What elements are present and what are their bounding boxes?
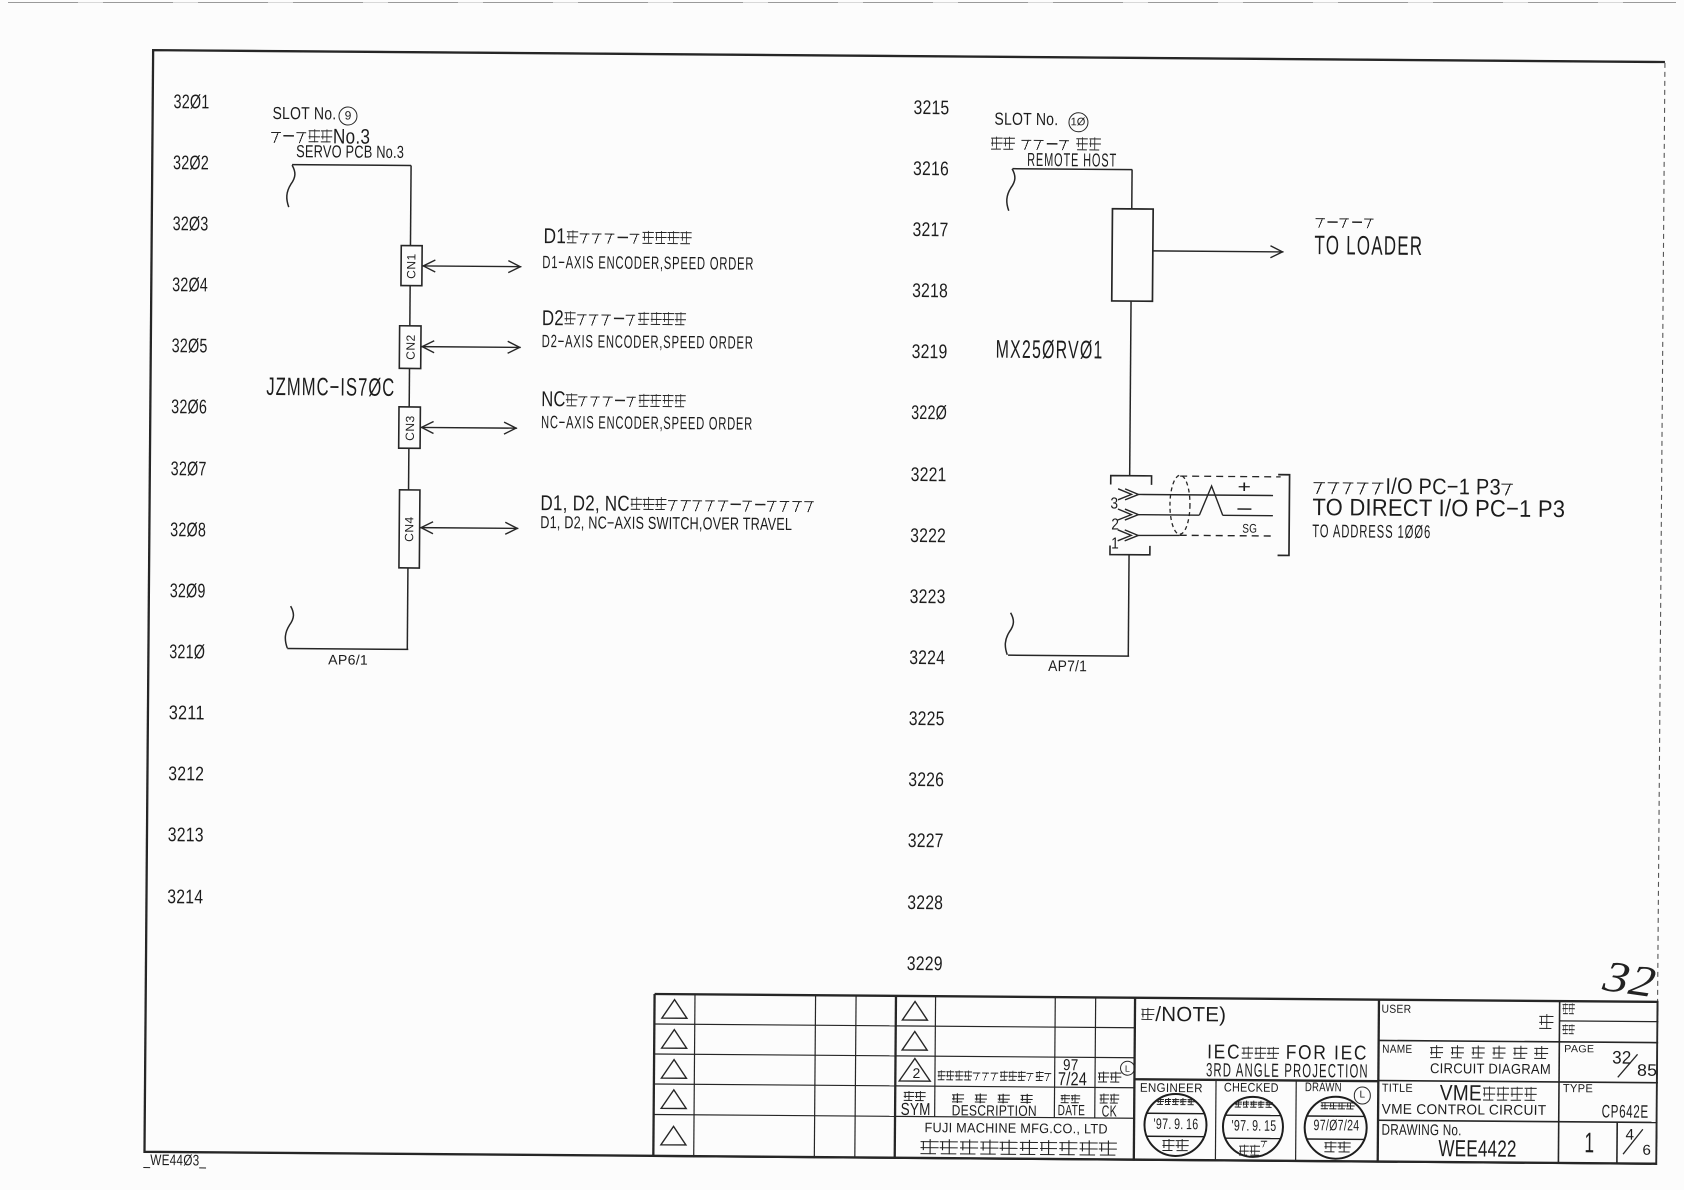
label NC-AXIS ENCODER SPEED ORDER <box>541 414 753 434</box>
title block right edge <box>1656 1001 1657 1165</box>
node/line number 3201 <box>174 93 210 113</box>
wire bus to CN1 <box>409 166 412 246</box>
stamp date 97.9.15 <box>1231 1119 1276 1135</box>
node/line number 3225 <box>908 710 944 730</box>
revision description text (jp) <box>937 1068 1053 1085</box>
header DESCRIPTION (jp) <box>950 1091 1033 1107</box>
module box MX250RV01 <box>1112 209 1153 302</box>
label REMOTE HOST <box>1027 151 1117 170</box>
circled mark L (drawn) <box>1353 1086 1371 1104</box>
label switch over travel (jp) <box>540 493 816 517</box>
page fraction slash <box>1618 1054 1638 1077</box>
left revision table row line <box>654 1114 895 1116</box>
pin 2 chevron outer <box>1118 509 1132 520</box>
twisted pair crossover <box>1199 486 1223 515</box>
circled slot number 9 <box>338 106 357 125</box>
connector bracket top <box>1111 476 1152 485</box>
stamp name Yamamoto (jp) <box>1238 1139 1268 1162</box>
cell bunban (jp) <box>1562 1003 1575 1016</box>
boundary brace (AP7/1 bottom) <box>1005 613 1013 655</box>
addressee dono (jp) <box>1538 1011 1554 1036</box>
revision triangle L1 <box>662 1000 687 1019</box>
revision table divider <box>895 996 896 1159</box>
node/line number 3222 <box>910 527 946 547</box>
sheet code _WE4403_ <box>142 1153 206 1169</box>
node/line number 3205 <box>172 337 208 357</box>
note box left edge <box>1134 998 1135 1161</box>
pin 1 chevron outer <box>1118 530 1132 541</box>
stamp DRAWN Esaka <box>1304 1096 1366 1158</box>
pin number 1 <box>1111 537 1119 553</box>
left revision table row line <box>654 1024 895 1026</box>
node/line number 3227 <box>907 832 943 852</box>
header DRAWING No. <box>1381 1122 1461 1138</box>
connector label CN2 <box>390 327 430 367</box>
sheet 4 <box>1625 1128 1634 1144</box>
sheet 6 <box>1643 1144 1652 1158</box>
pin 2 chevron inner <box>1125 509 1139 520</box>
wire to AP7/1 <box>1127 555 1130 656</box>
node/line number 3209 <box>170 582 206 602</box>
conductor + wire <box>1139 494 1273 495</box>
cable shield ellipse <box>1170 475 1190 534</box>
stamp date 97/07/24 <box>1314 1118 1360 1134</box>
left revision table row line <box>654 1084 895 1086</box>
polarity - label <box>1237 508 1251 510</box>
node/line number 3204 <box>172 276 208 296</box>
node/line number 3214 <box>167 888 203 908</box>
label D2-axis encoder speed order (jp) <box>542 308 687 331</box>
sheet fraction slash <box>1623 1129 1643 1154</box>
note header <box>1140 1005 1226 1026</box>
connector label CN4 <box>389 509 429 549</box>
left revision table left edge <box>653 994 654 1157</box>
drawing number WEE4422 <box>1438 1137 1516 1161</box>
wire CN1 to CN2 <box>409 286 411 326</box>
signal arrow CN4 arrowhead left <box>421 522 433 534</box>
header DATE <box>1058 1104 1086 1119</box>
connector bracket bottom <box>1110 546 1150 555</box>
revision triangle L3 <box>661 1060 686 1079</box>
conductor - wire (right) <box>1223 514 1273 516</box>
header PAGE <box>1564 1045 1594 1056</box>
boundary brace (servo pcb top) <box>287 165 295 207</box>
drawing frame right edge (faint) <box>1658 63 1665 1001</box>
handwritten page number 32 <box>1604 958 1656 1002</box>
pin number 2 <box>1111 518 1119 534</box>
header TYPE <box>1563 1083 1593 1095</box>
note 3RD ANGLE PROJECTION <box>1206 1061 1369 1081</box>
revision triangle R2 <box>902 1031 927 1050</box>
right info row line <box>1379 1040 1659 1042</box>
header DESCRIPTION <box>951 1104 1036 1120</box>
group bracket to direct I/O <box>1278 475 1290 556</box>
stamp ENGINEER Adachi <box>1144 1094 1206 1156</box>
stamp CHECKED Yamamoto <box>1223 1097 1283 1157</box>
note IEC <box>1207 1043 1368 1064</box>
stamp date 97.9.16 <box>1153 1117 1198 1133</box>
node/line number 3229 <box>906 955 942 975</box>
node/line number 3226 <box>908 771 944 791</box>
boundary brace (AP6/1 bottom) <box>285 606 293 648</box>
stamp dept (jp) <box>1320 1100 1354 1113</box>
label TO DIRECT I/O PC-1 P3 <box>1312 496 1565 522</box>
label TO ADDRESS 1006 <box>1312 522 1431 541</box>
title VME control circuit (jp) <box>1440 1082 1538 1105</box>
node/line number 3215 <box>913 99 949 119</box>
bunban/seiban divider <box>1560 1020 1659 1023</box>
node/line number 3206 <box>171 399 207 419</box>
title block top border <box>655 994 1659 1002</box>
node/line number 3221 <box>910 465 946 485</box>
cell seiban (jp) <box>1562 1024 1575 1037</box>
signal arrow CN2 <box>421 346 520 349</box>
connector CN1 <box>401 246 422 286</box>
page 32 <box>1612 1049 1632 1067</box>
component value JZMMC-IS70C <box>266 375 395 401</box>
net AP7/1 <box>1048 659 1087 675</box>
svg-text:2: 2 <box>913 1065 921 1081</box>
label D1-AXIS ENCODER SPEED ORDER <box>542 254 754 274</box>
label D2-AXIS ENCODER SPEED ORDER <box>541 333 753 353</box>
scan artifact top edge line <box>8 2 1676 3</box>
title CIRCUIT DIAGRAM <box>1430 1062 1551 1077</box>
header CHECKED <box>1224 1081 1279 1094</box>
conductor - wire (left) <box>1138 514 1199 516</box>
label direct I/O PC-1 P3 (jp) <box>1313 475 1516 499</box>
signal arrow CN3 arrowhead right <box>504 422 516 434</box>
node/line number 3208 <box>170 521 206 541</box>
stamp dept (jp) <box>1235 1100 1273 1110</box>
net AP6/1 <box>328 653 368 667</box>
revision 1 <box>1584 1129 1594 1158</box>
node/line number 3202 <box>173 154 209 174</box>
revision table column line <box>1053 997 1056 1117</box>
label TO LOADER <box>1314 232 1423 260</box>
right info block left edge <box>1378 1000 1379 1163</box>
node/line number 3217 <box>912 221 948 241</box>
connector label CN3 <box>389 407 429 447</box>
node/line number 3218 <box>912 282 948 302</box>
header TITLE <box>1382 1083 1413 1095</box>
label SERVO PCB No.3 <box>296 143 404 161</box>
revision table row line <box>896 1026 1135 1028</box>
signal arrow CN4 arrowhead right <box>505 522 517 534</box>
stamp cell divider 2 <box>1295 1081 1298 1162</box>
revision table row line <box>895 1116 1134 1118</box>
circled slot number 10 <box>1068 112 1088 132</box>
circled mark L (revision row) <box>1120 1060 1136 1076</box>
node/line number 3224 <box>909 649 945 669</box>
revision table row line <box>895 1086 1134 1088</box>
node/line number 3228 <box>907 894 943 914</box>
node/line number 3220 <box>911 404 947 424</box>
revision triangle L2 <box>662 1030 687 1049</box>
left revision table column line <box>814 995 815 1158</box>
signal arrow CN4 <box>420 527 518 530</box>
connector CN3 <box>399 407 421 448</box>
header DRAWN <box>1305 1081 1342 1094</box>
header NAME <box>1382 1044 1412 1056</box>
header CK (jp) <box>1099 1091 1120 1106</box>
signal arrow CN3 arrowhead left <box>421 421 433 433</box>
signal arrow CN1 arrowhead right <box>508 261 520 273</box>
wire CN3 to CN4 <box>408 448 410 490</box>
revision table column line <box>934 996 937 1116</box>
wire (AP6/1 bottom) <box>287 647 408 650</box>
pin number 3 <box>1110 497 1118 513</box>
header SYM (jp) <box>903 1088 926 1105</box>
pin 3 chevron outer <box>1118 489 1132 500</box>
revision triangle 2 <box>899 1058 930 1081</box>
node/line number 3212 <box>168 765 204 785</box>
stamp name Adachi (jp) <box>1161 1137 1189 1156</box>
signal arrow CN3 <box>421 426 517 429</box>
revision table row line <box>896 1056 1135 1058</box>
revision triangle L5 <box>661 1126 686 1145</box>
page 85 <box>1636 1062 1656 1079</box>
wire CN2 to CN3 <box>408 368 410 406</box>
title VME CONTROL CIRCUIT <box>1382 1103 1547 1119</box>
wire bus to connector <box>1130 301 1131 476</box>
label SLOT No.9 <box>272 105 336 123</box>
wire (AP7/1 bottom) <box>1008 654 1129 657</box>
boundary brace (remote host top) <box>1007 169 1015 211</box>
node/line number 3211 <box>169 704 205 724</box>
label to loader (jp) <box>1314 213 1375 233</box>
signal arrow CN1 arrowhead left <box>423 260 435 272</box>
connector CN4 <box>399 490 420 568</box>
right info column line <box>1558 1001 1559 1164</box>
left revision table row line <box>654 1054 895 1056</box>
header SYM <box>901 1101 931 1119</box>
label NC-axis encoder speed order (jp) <box>541 389 686 412</box>
title circuit diagram (jp) <box>1429 1043 1548 1065</box>
header ENGINEER <box>1140 1081 1203 1094</box>
title block bottom border <box>653 1157 1657 1165</box>
pin 1 chevron inner <box>1125 530 1139 541</box>
stamp name Esaka (jp) <box>1323 1139 1351 1158</box>
node/line number 3216 <box>912 160 948 180</box>
arrowhead TO LOADER <box>1270 246 1282 258</box>
signal arrow CN2 arrowhead right <box>508 341 520 353</box>
wire CN4 to AP6/1 <box>406 568 409 649</box>
left revision table column line <box>855 996 856 1159</box>
connector CN2 <box>399 326 421 369</box>
cable boundary top (dashed) <box>1180 475 1280 478</box>
conductor SG wire (dashed) <box>1180 534 1273 537</box>
node/line number 3210 <box>169 643 205 663</box>
revision table column line <box>1094 997 1097 1117</box>
conductor SG wire (solid) <box>1138 534 1180 537</box>
wire (servo pcb top) <box>292 164 411 167</box>
type CP642E <box>1601 1102 1648 1121</box>
label servo PCB (jp) <box>270 126 370 148</box>
sheet fraction divider <box>1616 1122 1618 1164</box>
wire (remote host top) <box>1013 168 1133 171</box>
revision triangle L4 <box>661 1090 686 1109</box>
note box bottom / stamp row top <box>1134 1079 1378 1081</box>
header USER <box>1382 1004 1412 1016</box>
revision date 7/24 <box>1058 1070 1087 1089</box>
signal arrow CN2 arrowhead left <box>422 341 434 353</box>
label high speed remote host (jp) <box>990 133 1101 155</box>
component value MX250RV01 <box>996 338 1104 364</box>
stamp dept (jp) <box>1157 1098 1195 1108</box>
wire bus to remote host box <box>1131 170 1133 209</box>
revision CK Esaka (jp) <box>1097 1069 1122 1086</box>
header DATE (jp) <box>1060 1092 1081 1107</box>
right info row line <box>1378 1120 1658 1122</box>
node/line number 3213 <box>168 827 204 847</box>
node/line number 3207 <box>171 460 207 480</box>
company name (jp) <box>919 1136 1118 1162</box>
connector label CN1 <box>391 245 431 285</box>
net SG label <box>1242 523 1257 536</box>
header CK <box>1102 1104 1118 1120</box>
revision date 97 <box>1063 1058 1079 1074</box>
polarity + label <box>1238 478 1252 496</box>
node/line number 3223 <box>909 588 945 608</box>
node/line number 3203 <box>173 215 209 235</box>
right info row line <box>1378 1081 1658 1083</box>
company FUJI MACHINE MFG.CO.,LTD <box>924 1121 1107 1136</box>
left revision table column line <box>694 994 695 1157</box>
signal arrow CN1 <box>422 265 521 268</box>
stamp cell divider 1 <box>1214 1080 1217 1161</box>
node/line number 3219 <box>911 343 947 363</box>
label D1,D2,NC-AXIS SWITCH OVER TRAVEL <box>540 514 792 533</box>
label SLOT No.10 <box>994 110 1058 128</box>
revision triangle R1 <box>902 1001 927 1020</box>
pin 3 chevron inner <box>1125 489 1139 500</box>
label D1-axis encoder speed order (jp) <box>543 226 692 249</box>
signal wire TO LOADER <box>1153 251 1284 252</box>
